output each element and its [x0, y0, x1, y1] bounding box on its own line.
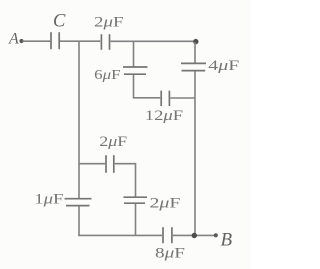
wire 6uF down and right to 12uF	[134, 75, 161, 98]
capacitor 8uF	[163, 227, 172, 243]
capacitor 12uF	[161, 91, 169, 106]
wire 12uF to right rail	[170, 97, 195, 99]
svg-text:2μF: 2μF	[94, 15, 124, 31]
capacitor 4uF	[181, 63, 206, 70]
node B terminal dot	[214, 233, 218, 237]
svg-text:12μF: 12μF	[145, 108, 183, 124]
wire lower 2uF to bottom rail	[135, 204, 137, 236]
wire right rail lower	[194, 71, 196, 235]
wire 2uF to top-right node	[110, 40, 195, 42]
wire 8uF to B	[173, 234, 216, 236]
capacitor 2uF (top)	[101, 34, 109, 50]
wire tee to mid 2uF	[79, 163, 105, 165]
wire A to C	[23, 40, 51, 42]
svg-text:4μF: 4μF	[208, 58, 239, 74]
capacitor 2uF (lower vertical)	[124, 197, 148, 203]
svg-text:6μF: 6μF	[94, 68, 121, 83]
node top-right dot	[193, 39, 198, 44]
svg-text:2μF: 2μF	[150, 196, 181, 212]
capacitor 2uF (middle horizontal)	[106, 155, 114, 173]
svg-text:2μF: 2μF	[99, 134, 127, 150]
bottom rail wire	[78, 234, 162, 236]
svg-text:A: A	[8, 31, 19, 48]
svg-text:8μF: 8μF	[155, 246, 185, 262]
wire mid 2uF right and down	[115, 164, 136, 197]
wire right rail upper	[194, 42, 196, 63]
capacitor C	[51, 32, 59, 49]
wire left branch from top rail junction	[78, 41, 80, 198]
svg-text:1μF: 1μF	[34, 192, 63, 208]
capacitor 1uF	[65, 199, 92, 206]
svg-text:C: C	[53, 12, 66, 32]
svg-text:B: B	[221, 230, 233, 251]
node junction dot bottom-right	[192, 233, 197, 238]
node A terminal dot	[19, 39, 23, 43]
wire C to 2uF top	[60, 40, 100, 42]
wire 1uF to bottom rail	[78, 206, 80, 235]
wire 6uF branch from top rail	[133, 41, 135, 66]
capacitor 6uF	[123, 67, 148, 74]
